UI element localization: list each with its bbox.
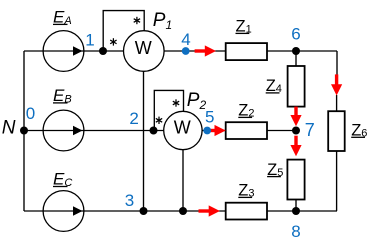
polarity mark * P2 voltage coil [173,99,179,106]
label Z3 [238,182,254,200]
wire left neutral bus [23,51,25,211]
current arrow node 7 to Z5 [290,136,301,157]
polarity mark * P2 current coil [156,117,162,124]
label EA [53,7,72,27]
label Z4 [266,77,282,95]
svg-text:W: W [174,118,191,138]
wire node 6 down to Z4 top [295,51,297,66]
node 6 junction dot [292,47,300,55]
wire phase C from bus through EC to Z3 [24,210,226,212]
EMF source EC [43,191,84,232]
wire phase A Z1 to top-right corner [267,50,337,52]
node 5 terminal dot [203,127,211,135]
wire P2 voltage-coil loop [154,90,183,130]
node 3 junction dot (P1 branch) [140,207,148,215]
svg-text:0: 0 [26,104,35,123]
wire phase B Z2 to node 7 [267,130,296,132]
wire Z6 bottom down to phase C [336,151,338,211]
wattmeter P2 [164,111,202,149]
current arrow right branch down (to Z6) [331,74,342,95]
label EC [53,170,72,190]
label Z2 [238,102,254,120]
node 8 junction dot [292,207,300,215]
EMF source EB [43,110,84,151]
impedance Z4 [288,66,305,107]
wire Z5 bottom to node 8 [295,200,297,212]
wire phase C Z3 to node 8 and Z6 branch [267,210,337,212]
impedance Z2 [226,122,267,139]
EMF source EA [43,31,84,72]
node N junction dot [20,127,28,135]
impedance Z1 [226,43,267,60]
label Z6 [351,122,367,140]
node 2 junction dot [150,127,158,135]
svg-text:1: 1 [85,31,94,50]
svg-text:7: 7 [305,120,315,140]
impedance Z6 [328,111,345,151]
wire P2 bottom terminal down to phase C [182,150,184,211]
label EB [53,86,72,106]
wire phase A P1 right to Z1 [164,50,226,52]
current arrow phase A (node 4 to Z1) [195,45,216,56]
svg-text:W: W [135,38,152,58]
wire phase A from bus through EA to P1 [24,50,124,52]
wire right branch corner down to arrow [336,51,338,75]
impedance Z5 [287,160,304,200]
node 4 terminal dot [182,47,190,55]
wire right branch arrow to Z6 top [336,95,338,111]
label Z5 [267,161,283,179]
svg-text:2: 2 [129,109,138,128]
wire P1 bottom terminal down to phase C [143,71,145,211]
wire phase B from bus through EB to P2 [24,130,164,132]
svg-text:N: N [2,118,16,139]
node 1 junction dot [99,47,107,55]
svg-text:5: 5 [205,108,214,127]
current arrow phase B (node 5 to Z2) [210,125,226,136]
node 3 junction dot (P2 branch) [179,207,187,215]
impedance Z3 [226,203,267,220]
wattmeter P1 [124,31,165,72]
label Z1 [236,18,252,36]
svg-text:8: 8 [291,222,300,238]
current arrow phase C (to Z3) [199,205,220,216]
wire P1 voltage-coil loop [103,11,144,51]
wire phase B P2 right to Z2 [202,130,226,132]
polarity mark * P1 current coil [110,38,116,45]
svg-text:3: 3 [125,191,134,210]
current arrow Z4 to node 7 [290,107,301,127]
polarity mark * P1 voltage coil [134,17,140,24]
svg-text:4: 4 [181,30,190,49]
node 7 junction dot [292,127,300,135]
svg-text:6: 6 [291,25,300,44]
